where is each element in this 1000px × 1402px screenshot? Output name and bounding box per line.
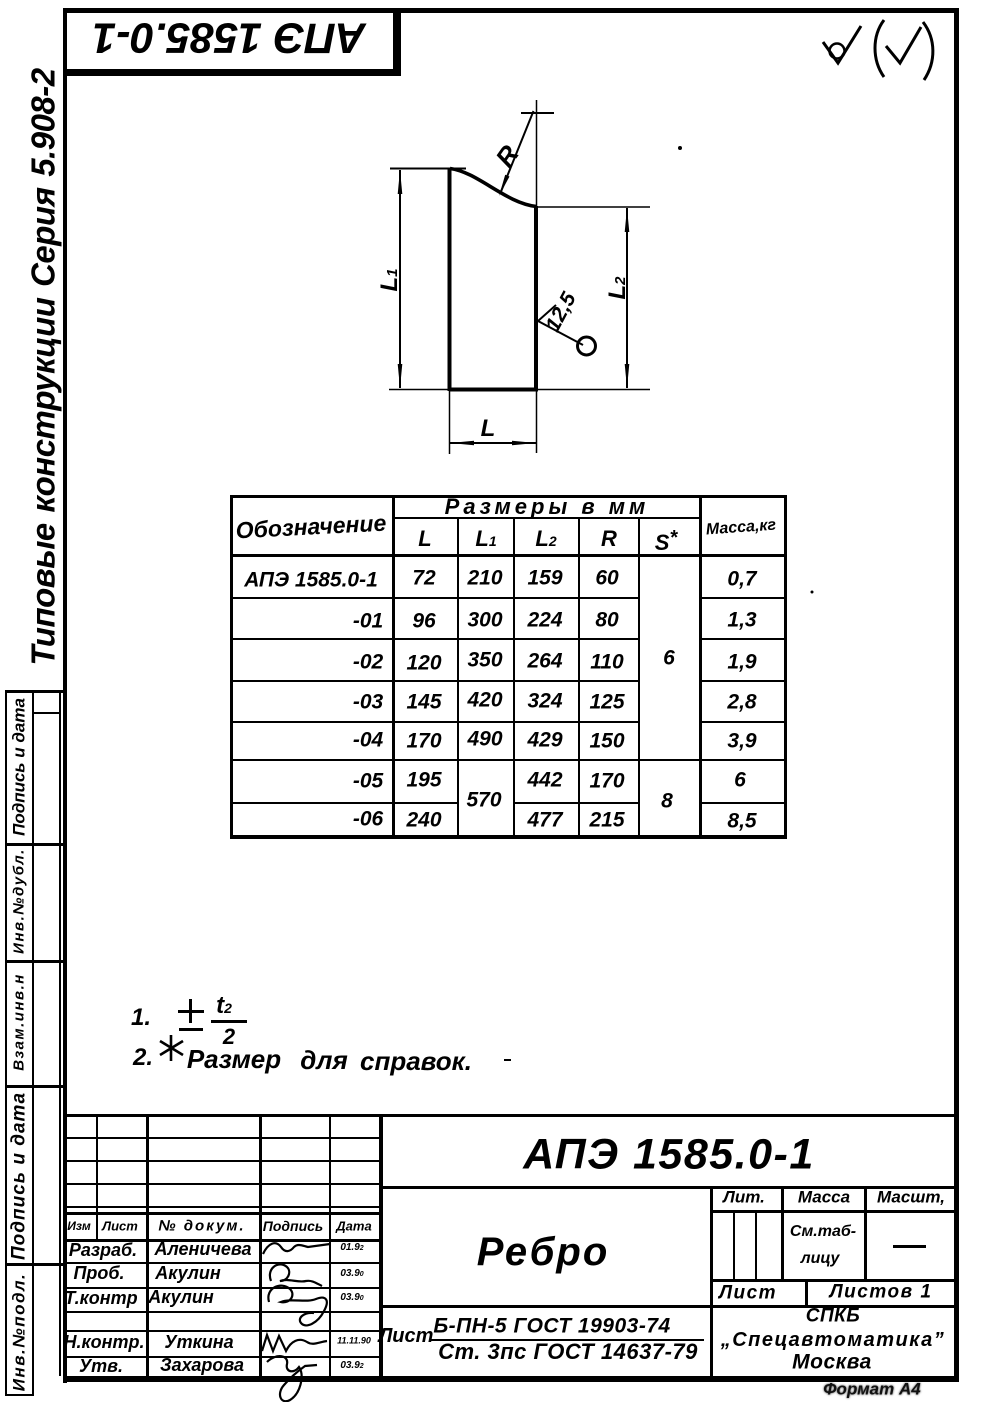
dimension line L2 bbox=[626, 208, 628, 388]
signature Akulin 2 bbox=[268, 1286, 326, 1326]
signature Alenicheva bbox=[263, 1243, 330, 1254]
roughness mark circle bbox=[578, 337, 596, 355]
dimension line L1 bbox=[399, 170, 401, 388]
TABLE bbox=[230, 495, 787, 498]
arrow R bbox=[499, 175, 510, 196]
part radius curve R bbox=[450, 169, 537, 207]
dimension R leader bbox=[500, 111, 534, 194]
dimension line L bbox=[450, 442, 536, 444]
part left edge bbox=[448, 168, 452, 391]
arrow L1 bottom bbox=[398, 364, 403, 388]
FRAME bbox=[63, 8, 67, 1383]
extension line top (L2) bbox=[537, 206, 650, 208]
SERIES VERTICAL TEXT bbox=[27, 68, 60, 665]
speck dot bbox=[811, 591, 814, 594]
extension line top (L1) bbox=[390, 168, 466, 170]
signature Zakharova bbox=[267, 1356, 317, 1401]
note asterisk star bbox=[170, 1035, 173, 1061]
arrow L2 top bbox=[625, 208, 630, 232]
extension line bottom bbox=[389, 389, 650, 391]
signature Utkina bbox=[262, 1335, 327, 1351]
NOTES bbox=[131, 1006, 151, 1030]
extension line left (L) bbox=[449, 391, 451, 454]
checkmark in parens bbox=[875, 20, 884, 77]
arrow L right bbox=[512, 441, 536, 446]
TOP LEFT BOX bbox=[393, 8, 401, 74]
arrow L1 top bbox=[398, 170, 403, 194]
speck dot bbox=[678, 146, 682, 150]
roughness mark 12,5 leader up bbox=[538, 305, 556, 321]
surface finish check with circle bbox=[830, 44, 845, 59]
part bottom edge bbox=[449, 388, 538, 392]
arc center tick bbox=[521, 112, 554, 114]
arrow L left bbox=[450, 441, 474, 446]
TITLE BLOCK bbox=[63, 1114, 956, 1117]
arrow L2 bottom bbox=[625, 364, 630, 388]
DRAWING LABELS bbox=[491, 141, 523, 171]
extension line right vertical bbox=[536, 100, 538, 453]
signature Akulin bbox=[270, 1264, 322, 1286]
roughness mark 12,5 leader down bbox=[538, 321, 583, 345]
LEFT MARGIN STRIP bbox=[5, 690, 7, 1396]
part right edge bbox=[534, 206, 538, 391]
